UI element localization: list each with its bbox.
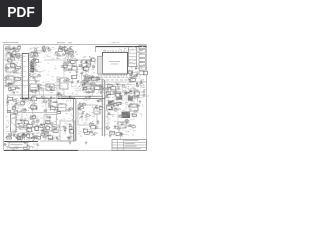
- sheet note top-mid: [57, 41, 65, 44]
- capacitor C59: [47, 132, 48, 134]
- IC U74: [53, 130, 58, 132]
- capacitor C69: [118, 88, 119, 90]
- resistor R8: [17, 56, 20, 58]
- resistor R9: [8, 48, 12, 49]
- wire: [83, 83, 85, 88]
- inductor L20: [32, 95, 35, 97]
- IC U91: [94, 86, 97, 88]
- net label annotations (bottom left mid): [8, 122, 10, 124]
- diode D14: [33, 137, 35, 138]
- IC U69: [54, 108, 58, 110]
- net label annotations (bottom left upper): [19, 100, 21, 103]
- resistor R116: [86, 97, 90, 99]
- resistor R90: [44, 132, 47, 134]
- module enclosure tuner: [78, 105, 97, 125]
- IC U43: [143, 71, 147, 75]
- wire: [13, 48, 18, 50]
- capacitor C49: [15, 143, 18, 145]
- diode D30: [91, 91, 93, 92]
- ground: [57, 93, 60, 96]
- wire: [71, 76, 73, 82]
- wire: [70, 130, 72, 137]
- IC U2 pin labels row2: [97, 79, 100, 82]
- wire: [77, 81, 82, 83]
- wire: [41, 134, 46, 136]
- resistor R108: [118, 128, 120, 129]
- wire: [112, 103, 114, 109]
- wire: [10, 64, 16, 66]
- resistor R69: [22, 135, 24, 137]
- wire: [36, 71, 43, 73]
- wire: [50, 97, 57, 99]
- resistor R111: [129, 125, 131, 126]
- resistor R49: [115, 91, 117, 92]
- resistor R78: [15, 146, 18, 148]
- resistor R41: [86, 77, 88, 79]
- resistor R25: [30, 64, 33, 66]
- resistor R45: [135, 96, 138, 97]
- ground: [69, 141, 72, 144]
- wire: [115, 93, 117, 96]
- IC U16 (right column): [139, 63, 145, 66]
- IC U53: [31, 105, 36, 109]
- diode D9: [131, 72, 133, 73]
- IC U22: [15, 77, 20, 80]
- wire: [12, 53, 14, 60]
- sheet bottom border heavy segment: [4, 149, 78, 151]
- IC U39: [92, 59, 95, 62]
- transistor Q32: [66, 79, 68, 81]
- wire: [143, 71, 145, 76]
- capacitor C51: [18, 146, 19, 148]
- inductor L5: [32, 59, 35, 61]
- wire: [35, 90, 37, 96]
- resistor R22: [32, 60, 35, 62]
- ground: [89, 95, 92, 98]
- diode D11: [116, 84, 118, 85]
- transistor Q7: [35, 70, 37, 72]
- IC U29: [34, 53, 38, 56]
- wire: [137, 91, 143, 93]
- IC U9 (vertical out, small tall): [11, 114, 17, 132]
- IC U97: [107, 106, 112, 110]
- IC U1 pins: [21, 55, 30, 96]
- wire: [43, 130, 46, 132]
- resistor R58: [28, 99, 31, 100]
- IC U14 (right column): [139, 54, 145, 57]
- wire: [114, 126, 121, 128]
- inductor L30: [120, 133, 123, 135]
- net label annotations (bottom left strip): [22, 146, 24, 147]
- capacitor C53: [69, 96, 70, 98]
- wire: [141, 81, 146, 83]
- dark block under U2 a: [116, 95, 122, 100]
- wire: [59, 47, 61, 51]
- net label annotations (bottom right upper): [135, 92, 137, 94]
- ground: [35, 80, 38, 83]
- net label annotations (right column): [140, 75, 142, 76]
- net label annotations (top-left): [15, 55, 17, 58]
- resistor R109: [132, 126, 136, 128]
- resistor R56: [13, 100, 16, 102]
- resistor R44: [131, 78, 133, 79]
- resistor R55: [23, 110, 26, 111]
- resistor R20: [31, 70, 34, 71]
- diode D4: [8, 84, 10, 85]
- resistor R50: [125, 93, 127, 94]
- resistor R77: [12, 147, 14, 149]
- capacitor C83: [92, 84, 93, 86]
- resistor R47: [134, 76, 137, 77]
- wire: [27, 124, 29, 128]
- wire: [124, 92, 126, 96]
- wire: [51, 124, 53, 129]
- wire bottom mid: [40, 140, 75, 142]
- IC U28: [34, 60, 39, 63]
- wire mid page 2: [4, 79, 40, 81]
- IC U11: [85, 63, 89, 66]
- wire: [131, 72, 138, 74]
- resistor R2: [88, 63, 91, 65]
- ground: [109, 134, 112, 137]
- wire: [111, 87, 113, 91]
- capacitor C1: [88, 60, 89, 62]
- IC U78: [70, 130, 74, 133]
- capacitor C8: [13, 56, 14, 58]
- resistor R71: [32, 138, 34, 139]
- capacitor C87: [38, 86, 39, 88]
- wire: [67, 49, 69, 56]
- IC U44: [131, 79, 136, 82]
- inductor L28: [63, 126, 66, 128]
- resistor R19: [16, 88, 19, 89]
- IC U31 (reset): [6, 76, 14, 84]
- capacitor C77: [127, 122, 128, 124]
- wire: [129, 71, 133, 73]
- horizontal bus pair mid: [58, 96, 105, 98]
- inductor L25: [42, 127, 45, 129]
- capacitor C4: [12, 53, 13, 55]
- wire: [16, 54, 22, 56]
- diode D15: [35, 136, 37, 137]
- capacitor C50: [26, 145, 27, 147]
- wire drop M1: [107, 86, 109, 130]
- resistor R79: [10, 143, 13, 145]
- power bus top right: [96, 46, 147, 48]
- IC U54: [21, 102, 25, 105]
- wire: [13, 56, 20, 58]
- IC U41: [92, 77, 96, 80]
- wire: [79, 65, 84, 67]
- wire drop M3: [125, 86, 127, 110]
- IC U84: [115, 93, 120, 97]
- inductor L33: [97, 76, 100, 78]
- wire: [30, 54, 36, 56]
- resistor R39: [73, 69, 77, 70]
- wire: [109, 107, 111, 111]
- inductor L27: [69, 123, 72, 125]
- wire: [64, 130, 66, 134]
- capacitor C15: [61, 48, 62, 50]
- wire: [23, 134, 29, 136]
- wire: [49, 137, 55, 139]
- wire: [61, 48, 63, 52]
- wire: [99, 88, 103, 90]
- wire: [31, 97, 35, 99]
- wire: [54, 108, 56, 113]
- resistor R51: [99, 85, 102, 86]
- capacitor C31: [134, 90, 135, 92]
- resistor R70: [22, 135, 25, 137]
- IC U32: [59, 49, 63, 52]
- capacitor C57: [42, 130, 43, 131]
- inductor L16: [143, 94, 146, 96]
- wire: [68, 50, 70, 57]
- IC U15 (right column): [139, 58, 145, 61]
- capacitor C78: [83, 89, 84, 91]
- resistor R112: [49, 86, 52, 88]
- transistor Q20: [118, 91, 120, 93]
- wire: [17, 137, 19, 143]
- wire: [30, 118, 35, 120]
- capacitor C76: [122, 124, 123, 126]
- resistor R88: [48, 100, 50, 101]
- resistor R43: [82, 84, 84, 85]
- capacitor C24: [82, 81, 83, 82]
- IC U60: [27, 124, 32, 127]
- diode D29: [77, 81, 79, 82]
- transistor Q4: [6, 77, 8, 79]
- IC U20: [8, 59, 12, 62]
- resistor R98: [81, 107, 84, 109]
- inductor L4: [12, 58, 15, 60]
- resistor R3: [82, 68, 85, 69]
- wire: [107, 106, 115, 108]
- wire drop M4: [133, 86, 135, 120]
- wire: [136, 67, 143, 69]
- transistor Q37: [38, 84, 40, 86]
- wire: [114, 104, 116, 108]
- wire: [10, 57, 12, 64]
- transistor Q35: [41, 89, 43, 91]
- capacitor C66: [78, 107, 79, 109]
- wire: [87, 76, 89, 81]
- wire top left vertical: [35, 46, 37, 62]
- wire: [57, 55, 63, 57]
- wire: [108, 114, 115, 116]
- resistor R113: [64, 80, 67, 81]
- resistor R102: [119, 103, 121, 104]
- resistor R82: [68, 110, 70, 111]
- transistor Q36: [98, 87, 100, 89]
- dark block under U2 b: [128, 96, 133, 101]
- diode D10: [102, 88, 104, 89]
- IC U70: [50, 106, 55, 109]
- transistor Q19: [135, 93, 137, 95]
- resistor R15: [8, 83, 11, 85]
- wire: [91, 83, 97, 85]
- resistor R73: [28, 137, 32, 138]
- wire: [8, 48, 12, 50]
- capacitor C30: [136, 67, 137, 69]
- wire: [129, 81, 134, 83]
- title block: [112, 140, 146, 151]
- transistor Q11: [47, 47, 49, 49]
- resistor R121: [31, 90, 33, 91]
- net label annotations (above frame marks): [112, 42, 114, 44]
- capacitor C9: [11, 55, 12, 57]
- wire: [134, 76, 137, 78]
- resistor R48: [136, 85, 138, 87]
- IC U40: [84, 67, 89, 70]
- wire: [42, 90, 44, 97]
- capacitor C33: [136, 74, 137, 76]
- resistor R40: [84, 80, 87, 81]
- capacitor C71: [107, 95, 108, 97]
- wire: [71, 83, 73, 86]
- IC U88: [116, 133, 121, 136]
- capacitor C81: [97, 79, 98, 81]
- capacitor C32: [141, 81, 142, 83]
- wire: [14, 105, 22, 107]
- wire: [99, 78, 104, 80]
- IC U51: [8, 97, 13, 100]
- wire: [12, 147, 17, 149]
- inductor L21: [33, 126, 36, 128]
- transistor Q6: [28, 73, 30, 75]
- wire: [32, 138, 37, 140]
- IC U1 (jungle IC, tall): [22, 54, 28, 100]
- resistor R87: [43, 101, 47, 102]
- resistor R114: [92, 89, 95, 90]
- resistor R24: [31, 57, 33, 58]
- wire: [22, 135, 24, 140]
- wire: [85, 69, 87, 76]
- inductor L31: [50, 89, 53, 91]
- transistor Q33: [57, 79, 59, 81]
- wire: [32, 76, 34, 79]
- resistor R1: [81, 61, 83, 63]
- capacitor C70: [137, 95, 138, 97]
- wire: [89, 76, 92, 78]
- resistor R101: [119, 116, 123, 118]
- transistor Q29: [48, 105, 50, 107]
- resistor R84: [58, 94, 60, 95]
- net label annotations (centre gap sparse): [53, 68, 55, 69]
- wire: [137, 95, 139, 102]
- resistor R103: [108, 114, 110, 115]
- resistor R75: [10, 145, 13, 147]
- resistor R33: [69, 54, 72, 55]
- transistor Q24: [25, 128, 27, 130]
- wire: [34, 77, 36, 81]
- resistor R32: [57, 55, 60, 56]
- wire: [129, 105, 136, 107]
- resistor R64: [32, 122, 35, 124]
- capacitor C74: [113, 100, 114, 102]
- capacitor C86: [39, 88, 40, 90]
- wire: [32, 60, 34, 65]
- wire: [118, 88, 121, 90]
- resistor R38: [65, 63, 68, 64]
- wire: [130, 103, 136, 105]
- IC U23: [9, 88, 13, 90]
- resistor R91: [56, 126, 59, 127]
- wire row under U2: [80, 82, 146, 85]
- IC U45: [129, 71, 133, 74]
- wire: [34, 53, 36, 58]
- IC U1 pin labels: [23, 55, 26, 58]
- inductor L13: [80, 73, 83, 75]
- resistor R92: [43, 136, 46, 137]
- capacitor C54: [53, 126, 54, 128]
- wire: [99, 107, 104, 109]
- wire: [128, 95, 130, 101]
- capacitor C21: [85, 69, 86, 71]
- IC U50: [12, 107, 16, 109]
- ground: [85, 141, 88, 144]
- resistor R106: [120, 133, 123, 135]
- wire: [90, 60, 92, 65]
- inductor L24: [60, 103, 63, 105]
- capacitor C46: [16, 137, 17, 139]
- capacitor C29: [134, 92, 135, 94]
- wire: [38, 86, 40, 93]
- IC U19: [13, 51, 16, 54]
- transistor Q3: [5, 77, 7, 79]
- wire: [8, 84, 10, 88]
- wire: [36, 50, 42, 52]
- transistor Q28: [8, 135, 10, 137]
- IC U33 (eeprom): [46, 84, 54, 91]
- wire: [63, 65, 65, 70]
- IC U38: [108, 88, 116, 95]
- resistor R14: [6, 85, 9, 87]
- wire: [84, 88, 89, 90]
- wire: [106, 92, 109, 94]
- wire: [80, 74, 82, 80]
- wire pair left of U30: [57, 76, 59, 96]
- wire: [135, 96, 138, 98]
- inductor L23: [50, 100, 53, 102]
- diode D27: [130, 103, 132, 104]
- resistor R118: [92, 76, 94, 77]
- inductor L26: [55, 128, 58, 130]
- transistor Q30: [50, 122, 52, 124]
- transistor Q8: [34, 48, 36, 50]
- wire: [53, 130, 55, 133]
- transistor Q25: [35, 129, 37, 131]
- wire: [68, 60, 70, 63]
- diode D25: [128, 95, 130, 96]
- resistor R37: [68, 70, 71, 71]
- diode D5: [59, 50, 61, 51]
- wire: [17, 136, 22, 138]
- resistor R100: [114, 109, 117, 111]
- resistor R60: [30, 117, 33, 118]
- transistor Q10: [62, 48, 64, 50]
- connector J2 (pin header): [129, 47, 137, 67]
- IC U73: [49, 137, 53, 140]
- wire: [122, 124, 126, 126]
- resistor R13: [14, 72, 16, 73]
- wire: [42, 130, 50, 132]
- IC U21: [10, 57, 14, 60]
- wire: [50, 106, 57, 108]
- wire: [131, 75, 133, 81]
- resistor R16: [15, 69, 19, 71]
- wire: [119, 116, 125, 118]
